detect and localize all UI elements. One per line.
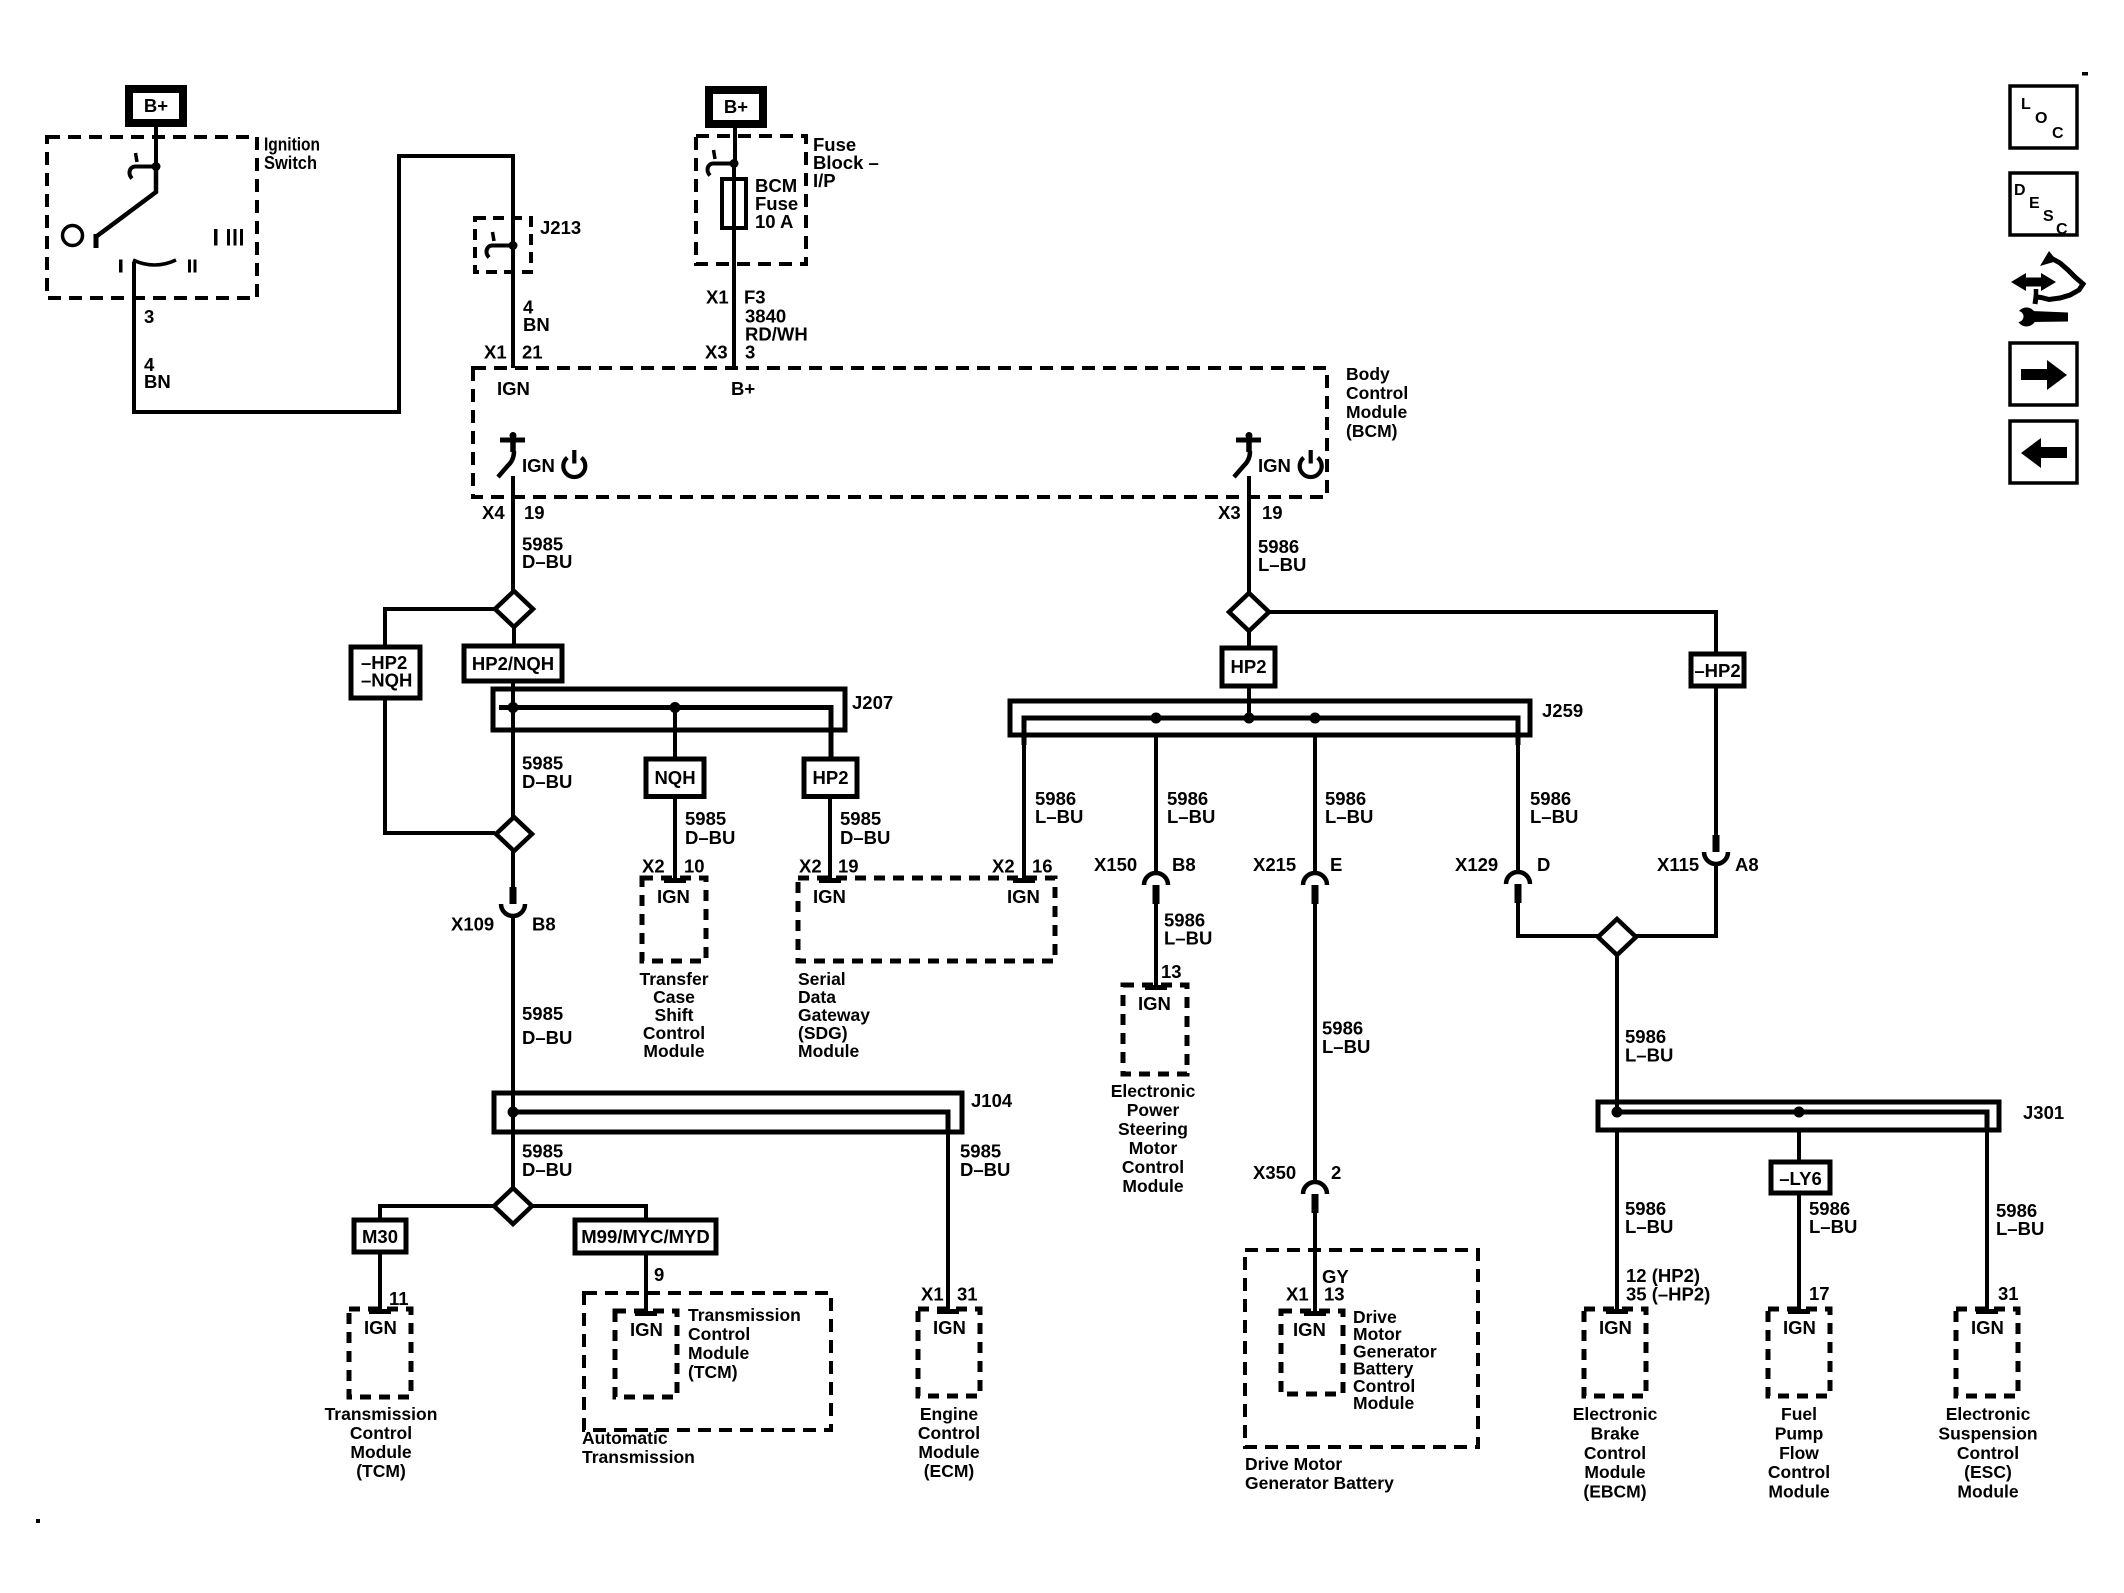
svg-text:X4: X4 [482,502,505,523]
wire B+ to fuse block [733,128,737,164]
svg-text:IGN: IGN [1293,1319,1326,1340]
power feed B+ (fuse block) [705,86,767,128]
wire B+ to ignition switch [154,127,158,167]
pin label X1 F3 [706,287,766,308]
J207 junction (NQH tap) [670,702,681,713]
pin label X3 3 [705,342,755,363]
svg-text:Module: Module [643,1041,705,1061]
svg-text:B+: B+ [144,95,168,116]
svg-text:X1: X1 [921,1284,944,1305]
EPS IGN pin box [1123,985,1187,1074]
svg-text:10: 10 [684,856,705,877]
BCM fuse element [722,179,746,228]
svg-text:–LY6: –LY6 [1779,1168,1822,1189]
svg-text:Suspension: Suspension [1938,1423,2037,1443]
svg-text:M30: M30 [362,1226,398,1247]
wire J207 to NQH option [673,707,677,759]
label circuit 5986 L-BU (X129 branch) [1530,788,1578,827]
svg-text:D–BU: D–BU [960,1159,1010,1180]
icon button LOC [2010,86,2077,148]
wire J213 to BCM X1-21 [511,249,515,368]
option box -LY6 [1771,1162,1830,1193]
splice diamond (5986 lower) [1598,919,1636,955]
label circuit 5986 L-BU (X150 below) [1164,910,1212,949]
wire through BCM fuse [732,167,736,368]
svg-text:HP2: HP2 [813,767,849,788]
J259 internal bus line [1024,718,1518,745]
wire J259 to X150 [1154,735,1158,872]
label 4 BN (circuit to BCM) [523,297,550,336]
label circuit 5986 L-BU (fuel pump) [1809,1198,1857,1237]
option box M30 [354,1220,406,1252]
svg-text:31: 31 [1998,1283,2019,1304]
svg-text:Brake: Brake [1591,1423,1640,1443]
svg-text:J104: J104 [971,1090,1013,1111]
label circuit 5986 L-BU (to J301) [1625,1026,1673,1066]
stray mark top right [2082,72,2088,76]
svg-text:L–BU: L–BU [1809,1216,1857,1237]
svg-text:5985: 5985 [522,1003,563,1024]
option box NQH [646,759,704,797]
svg-text:–HP2: –HP2 [1694,660,1740,681]
svg-text:X2: X2 [992,856,1015,877]
label Electronic Brake Control Module (EBCM) [1573,1404,1658,1502]
label circuit 5985 D-BU (ECM branch) [960,1141,1010,1181]
icon button next (right arrow) [2010,343,2077,405]
svg-text:IGN: IGN [364,1317,397,1338]
option box HP2/NQH [464,646,562,681]
label Transmission Control Module (TCM) [325,1404,438,1481]
svg-text:X129: X129 [1455,854,1498,875]
svg-text:E: E [2029,195,2040,212]
ECM IGN pin box [918,1309,980,1396]
option box M99/MYC/MYD [575,1220,716,1253]
label Transmission Control Module (TCM) inner [688,1305,801,1382]
wire diamond to J301 [1615,955,1619,1112]
svg-text:Module: Module [688,1343,750,1363]
svg-text:Data: Data [798,987,836,1007]
label circuit 5986 L-BU (ESC) [1996,1200,2044,1239]
pin label X2 19 [799,856,859,877]
svg-text:Shift: Shift [655,1005,694,1025]
wire X215 to X350 [1313,904,1317,1181]
svg-text:X215: X215 [1253,854,1296,875]
fuel pump IGN pin box [1768,1309,1830,1396]
svg-text:Module: Module [1122,1176,1184,1196]
splice diamond (5986 upper) [1229,593,1269,631]
J259 junction (X150 tap) [1151,713,1162,724]
drive motor battery control IGN pin box [1281,1311,1343,1394]
label Transfer Case Shift Control Module [639,969,708,1061]
svg-text:X1: X1 [1286,1284,1309,1305]
svg-text:L–BU: L–BU [1530,806,1578,827]
svg-text:Switch: Switch [264,152,317,173]
svg-text:Module: Module [918,1442,980,1462]
wire M99 to automatic transmission [644,1253,648,1311]
splice diamond (5985 upper) [495,591,533,627]
label Engine Control Module (ECM) [918,1404,980,1481]
wire HP2 to SDG module [828,797,832,881]
label Drive Motor Generator Battery Control Module [1353,1307,1437,1413]
label X150 B8 [1094,854,1196,875]
svg-text:Transfer: Transfer [639,969,708,989]
position II contact arc [119,260,197,273]
svg-text:Motor: Motor [1129,1138,1178,1158]
ESC IGN pin box [1956,1309,2018,1396]
svg-text:Power: Power [1127,1100,1180,1120]
option text -HP2 -NQH [361,652,412,691]
svg-text:B+: B+ [724,96,748,117]
fuse block contact [708,150,739,176]
svg-text:5985: 5985 [685,808,726,829]
svg-text:D–BU: D–BU [522,551,572,572]
option box -HP2 [1691,654,1744,686]
wire diamond to HP2/NQH option [512,627,516,646]
label Body Control Module (BCM) [1346,364,1408,441]
svg-text:Electronic: Electronic [1573,1404,1658,1424]
transfer case IGN pin box [642,878,706,961]
label X215 E [1253,854,1342,875]
position marks I III [214,229,243,246]
svg-text:Module: Module [1353,1393,1415,1413]
wire X115 to lower diamond [1636,865,1716,936]
wire diamond to M30 option [380,1206,494,1220]
wire diamond to -HP2 option [1269,612,1716,654]
in-line connector X150 [1144,873,1168,904]
svg-text:E: E [1330,854,1342,875]
svg-text:X150: X150 [1094,854,1137,875]
svg-text:Control: Control [688,1324,750,1344]
splice diamond (5985 bottom) [494,1188,532,1224]
ignition switch fixed contact [130,153,161,179]
svg-text:D: D [1537,854,1550,875]
svg-text:Module: Module [1346,402,1408,422]
svg-text:(TCM): (TCM) [356,1461,406,1481]
svg-text:Automatic: Automatic [582,1428,668,1448]
svg-text:L–BU: L–BU [1258,554,1306,575]
J207 internal bus line [499,708,831,760]
svg-text:A8: A8 [1735,854,1759,875]
label X109 B8 [451,914,556,935]
option box -HP2 -NQH [351,647,420,698]
svg-text:L–BU: L–BU [1035,806,1083,827]
svg-text:IGN: IGN [1599,1317,1632,1338]
splice pack J213 box [475,218,531,272]
svg-text:D–BU: D–BU [685,827,735,848]
svg-text:31: 31 [957,1284,978,1305]
svg-text:3: 3 [745,342,755,363]
svg-text:(EBCM): (EBCM) [1583,1482,1646,1502]
svg-text:IGN: IGN [1138,993,1171,1014]
J104 internal bus line [511,1112,948,1132]
wire J301 to ESC [1985,1130,1989,1309]
label X350 2 [1253,1162,1341,1183]
J259 junction (center) [1244,713,1255,724]
svg-text:10 A: 10 A [755,211,793,232]
ignition switch box [47,137,257,298]
svg-text:O: O [2035,110,2047,127]
svg-text:–NQH: –NQH [361,670,412,691]
svg-text:L–BU: L–BU [1325,806,1373,827]
ESC wire end T [1976,1309,1998,1314]
svg-text:J213: J213 [540,217,581,238]
svg-text:2: 2 [1331,1162,1341,1183]
fuel pump wire end T [1788,1309,1810,1314]
ECM wire end T [937,1309,959,1314]
option box HP2 (right) [1222,648,1275,686]
option box HP2 (left) [804,759,857,797]
svg-text:13: 13 [1161,961,1182,982]
label circuit 5985 D-BU (HP2 branch) [840,808,890,848]
svg-text:Engine: Engine [920,1404,979,1424]
wire J259 to X129 [1516,735,1520,872]
svg-text:Transmission: Transmission [582,1447,695,1467]
svg-text:D–BU: D–BU [522,1159,572,1180]
svg-text:Fuel: Fuel [1781,1404,1817,1424]
label circuit 5985 D-BU (to J104) [522,1003,572,1048]
label Electronic Suspension Control (ESC) Module [1938,1404,2037,1502]
in-line connector X350 [1303,1182,1327,1213]
svg-text:5985: 5985 [840,808,881,829]
svg-text:B+: B+ [731,378,755,399]
splice diamond (5985 lower) [496,817,532,851]
svg-text:IGN: IGN [1971,1317,2004,1338]
svg-text:J207: J207 [852,692,893,713]
icon button back (left arrow) [2010,421,2077,483]
label circuit 5985 D-BU (below J207) [522,753,572,793]
label circuit 5986 L-BU (BCM out) [1258,536,1306,575]
pin label X2 10 [642,856,705,877]
svg-text:(ECM): (ECM) [924,1461,975,1481]
svg-text:Electronic: Electronic [1111,1081,1196,1101]
wire diamond to -HP2/-NQH option [385,609,495,647]
svg-text:X115: X115 [1657,854,1699,875]
pin label 12 (HP2) 35 (-HP2) [1626,1265,1710,1305]
J301 junction (LY6 tap) [1794,1107,1805,1118]
wire J259 to X215 [1313,735,1317,872]
pin label X1 31 (ECM) [921,1284,978,1305]
svg-text:9: 9 [654,1264,664,1285]
svg-text:IGN: IGN [933,1317,966,1338]
svg-text:X2: X2 [642,856,665,877]
J207 junction (main) [508,702,519,713]
svg-text:X1: X1 [484,342,507,363]
in-line connector X115 [1704,835,1728,864]
svg-text:Control: Control [918,1423,980,1443]
svg-text:13: 13 [1324,1284,1345,1305]
label Electronic Power Steering Motor Control Module [1111,1081,1196,1196]
svg-text:X3: X3 [705,342,728,363]
wire HP2/NQH through J207 [511,681,515,817]
svg-text:Module: Module [1584,1462,1646,1482]
wire X150 to EPS module [1154,904,1158,985]
EBCM wire end T [1606,1309,1628,1314]
J104 junction [508,1107,519,1118]
label Ignition Switch [264,134,320,174]
splice pack J207 bus [493,689,845,730]
svg-text:L–BU: L–BU [1625,1045,1673,1066]
svg-text:Control: Control [643,1023,705,1043]
svg-text:35 (–HP2): 35 (–HP2) [1626,1284,1710,1305]
label circuit 5985 D-BU (BCM out) [522,534,572,573]
wire M30 to TCM [378,1252,382,1309]
svg-text:IGN: IGN [1007,886,1040,907]
wire X129 to lower diamond [1518,903,1598,936]
svg-text:19: 19 [1262,502,1283,523]
pin label X2 16 [992,856,1053,877]
J301 junction (entry) [1612,1107,1623,1118]
svg-text:(ESC): (ESC) [1964,1462,2012,1482]
svg-text:Flow: Flow [1779,1443,1819,1463]
svg-text:Module: Module [1768,1482,1830,1502]
splice pack J301 bus [1598,1102,1999,1130]
BCM internal IGN switch (left) [498,432,585,477]
label Drive Motor Generator Battery [1245,1454,1394,1493]
svg-text:Control: Control [1768,1462,1830,1482]
svg-text:(TCM): (TCM) [688,1362,738,1382]
in-line connector X215 [1303,873,1327,904]
EBCM IGN pin box [1584,1309,1646,1396]
wire J104 through to lower diamond [511,1093,515,1188]
J259 junction (X215 tap) [1310,713,1321,724]
ignition switch blade [96,169,156,248]
label circuit 5986 L-BU (X215 below) [1322,1018,1370,1058]
svg-text:B8: B8 [532,914,556,935]
wire HP2 option to J259 [1247,686,1251,718]
svg-text:L–BU: L–BU [1164,928,1212,949]
pin label X4 19 [482,502,545,523]
svg-text:X109: X109 [451,914,494,935]
pin label X1 21 [484,342,543,363]
svg-text:Transmission: Transmission [325,1404,438,1424]
svg-text:NQH: NQH [654,767,695,788]
wire J301 to -LY6 option [1797,1130,1801,1162]
svg-text:M99/MYC/MYD: M99/MYC/MYD [581,1226,710,1247]
svg-text:D: D [2014,182,2026,199]
svg-text:Drive Motor: Drive Motor [1245,1454,1342,1474]
TCM wire end T [369,1309,391,1314]
wire J104 to ECM [946,1132,950,1309]
ignition switch terminal circle [63,226,83,246]
svg-text:19: 19 [838,856,859,877]
svg-text:IGN: IGN [630,1319,663,1340]
svg-text:Steering: Steering [1118,1119,1188,1139]
label 4 BN [144,354,171,392]
svg-text:Control: Control [1346,383,1408,403]
fuse block I/P box [696,136,806,264]
svg-text:HP2: HP2 [1231,656,1267,677]
label Serial Data Gateway (SDG) Module [798,969,870,1061]
svg-text:IGN: IGN [522,455,555,476]
svg-text:X2: X2 [799,856,822,877]
wire ignition switch to J213 [134,156,513,412]
svg-text:Module: Module [798,1041,860,1061]
svg-text:Module: Module [350,1442,412,1462]
svg-text:17: 17 [1809,1283,1830,1304]
wire NQH to transfer case module [673,797,677,881]
label circuit 5985 D-BU (NQH branch) [685,808,735,848]
svg-text:L–BU: L–BU [1625,1216,1673,1237]
pin label X3 19 [1218,502,1283,523]
svg-text:(BCM): (BCM) [1346,421,1398,441]
svg-text:19: 19 [524,502,545,523]
svg-text:Control: Control [350,1423,412,1443]
svg-text:D–BU: D–BU [840,827,890,848]
svg-text:Pump: Pump [1775,1423,1824,1443]
svg-text:Generator Battery: Generator Battery [1245,1473,1394,1493]
drive motor generator battery box [1245,1250,1478,1447]
svg-text:IGN: IGN [1783,1317,1816,1338]
svg-text:Control: Control [1957,1443,2019,1463]
svg-text:L–BU: L–BU [1167,806,1215,827]
svg-text:Body: Body [1346,364,1390,384]
wire diamond to M99 option [532,1206,646,1220]
svg-text:BN: BN [523,314,550,335]
splice pack J104 bus [494,1093,962,1132]
svg-text:L–BU: L–BU [1996,1218,2044,1239]
label circuit 5986 L-BU (X150 above) [1167,788,1215,827]
pin label X1 13 (drive motor) [1286,1284,1345,1305]
svg-text:Gateway: Gateway [798,1005,870,1025]
svg-text:S: S [2043,208,2054,225]
label circuit 3840 RD/WH [745,306,808,345]
svg-text:I/P: I/P [813,170,836,191]
label Fuse Block - I/P [813,134,879,191]
automatic transmission box [584,1293,831,1430]
svg-text:Case: Case [653,987,695,1007]
svg-text:IGN: IGN [657,886,690,907]
splice pack J259 bus [1010,701,1530,735]
svg-text:IGN: IGN [1258,455,1291,476]
svg-text:L: L [2021,96,2031,113]
label X115 A8 [1657,854,1759,875]
wire -HP2/-NQH to lower diamond [385,698,495,833]
J301 internal bus line [1617,1112,1987,1130]
svg-text:B8: B8 [1172,854,1196,875]
svg-text:Control: Control [1122,1157,1184,1177]
svg-text:11: 11 [389,1288,409,1309]
label Fuel Pump Flow Control Module [1768,1404,1830,1502]
J213 contact [487,232,518,258]
svg-text:Transmission: Transmission [688,1305,801,1325]
svg-text:C: C [2052,125,2064,142]
svg-text:IGN: IGN [813,886,846,907]
in-line connector X109 [501,887,525,916]
wire X350 to drive motor battery module [1313,1213,1317,1311]
svg-text:(SDG): (SDG) [798,1023,848,1043]
svg-text:Electronic: Electronic [1946,1404,2031,1424]
svg-text:F3: F3 [744,287,766,308]
svg-text:X350: X350 [1253,1162,1296,1183]
svg-text:Control: Control [1584,1443,1646,1463]
label X129 D [1455,854,1550,875]
svg-text:D–BU: D–BU [522,1027,572,1048]
wire J301 to EBCM [1615,1130,1619,1309]
svg-text:D–BU: D–BU [522,771,572,792]
wire -HP2 to X115 [1714,686,1718,835]
label BCM Fuse 10 A [755,175,798,232]
serial data gateway (SDG) module box [798,878,1055,961]
svg-text:L–BU: L–BU [1322,1036,1370,1057]
wire lower diamond to X109 [511,851,515,889]
icon button DESC [2010,173,2077,238]
body control module (BCM) box [473,368,1327,497]
label circuit 5985 D-BU (left drop) [522,1141,572,1181]
wire BCM right switch to X3-19 [1247,476,1251,594]
wire -LY6 to fuel pump module [1797,1193,1801,1309]
svg-text:Module: Module [1957,1482,2019,1502]
automatic transmission TCM IGN pin box [615,1311,677,1397]
